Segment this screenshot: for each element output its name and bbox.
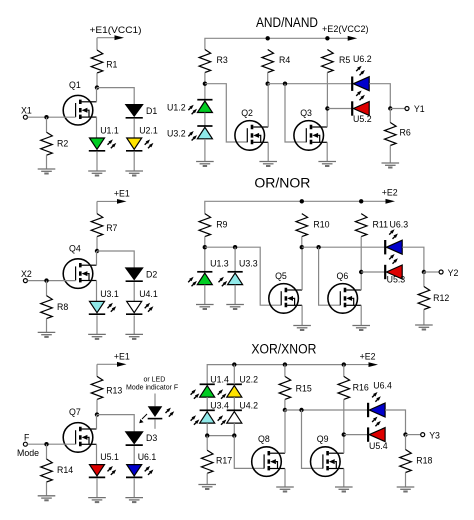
- wire R13 to node: [96, 399, 98, 414]
- wire U1.2 to U3.2: [204, 113, 206, 126]
- wire F to Q7 gate: [28, 443, 76, 445]
- diode D2: [126, 268, 158, 281]
- node A: [203, 82, 207, 86]
- ground U1.1: [88, 171, 106, 176]
- ground R2: [38, 169, 56, 174]
- terminal Y2: [439, 270, 443, 274]
- wire to Y1: [390, 108, 405, 110]
- terminal F: [23, 442, 27, 446]
- resistor R13: [91, 376, 122, 399]
- LED U1.4 green: [191, 374, 229, 399]
- junction node B / Q3 gate: [283, 82, 287, 86]
- ground U5.1: [88, 498, 106, 503]
- resistor R5: [322, 50, 351, 73]
- svg-text:+E1: +E1: [114, 352, 130, 362]
- wire R4 to node B: [267, 73, 269, 84]
- resistor R2: [41, 132, 69, 155]
- wire node A to Q2 gate: [205, 84, 247, 142]
- wire Q8 drain up: [284, 410, 286, 453]
- svg-text:or LED: or LED: [144, 377, 166, 384]
- power +E1 +E1: [97, 189, 130, 204]
- svg-text:U1.1: U1.1: [100, 126, 119, 136]
- wire node C2 to U5.3: [361, 271, 385, 273]
- transistor Q3 (N-MOSFET): [294, 108, 327, 150]
- wire R10 to node B2: [301, 237, 303, 248]
- svg-text:U1.3: U1.3: [210, 258, 229, 268]
- LED U2.1 yellow: [126, 126, 158, 151]
- ground Q8: [276, 487, 294, 492]
- transistor Q9 (N-MOSFET): [311, 434, 344, 476]
- wire rail to U2.2: [233, 365, 235, 385]
- svg-text:Y3: Y3: [429, 430, 440, 440]
- resistor R1: [91, 50, 117, 73]
- wire node B2 to U6.3: [302, 246, 385, 248]
- node Q7 drain junction: [95, 412, 99, 416]
- wire U1.4 to U3.4: [206, 397, 208, 410]
- svg-text:R18: R18: [416, 456, 432, 466]
- svg-text:R17: R17: [216, 456, 232, 466]
- LED U6.1 blue: [126, 452, 156, 477]
- ground Q9: [335, 487, 353, 492]
- svg-text:Y2: Y2: [448, 268, 459, 278]
- wire U2.2 to U4.2: [233, 397, 235, 410]
- wire rail to R15: [284, 365, 286, 377]
- wire E1 to R1: [96, 38, 98, 50]
- wire D2 to U4.1: [133, 282, 135, 301]
- svg-text:XOR/XNOR: XOR/XNOR: [251, 342, 316, 357]
- node Y3 junction: [403, 432, 407, 436]
- LED U4.1 white: [126, 289, 158, 314]
- wire Q7 drain up: [96, 415, 98, 429]
- ground Q5: [293, 326, 311, 331]
- wire U6.4 anode to Y3 node: [385, 410, 405, 435]
- svg-text:Q6: Q6: [337, 271, 349, 281]
- wire R17 to ground: [206, 473, 208, 484]
- wire U6.1 to ground: [133, 479, 135, 498]
- ground Q3: [318, 162, 336, 167]
- svg-text:+E1(VCC1): +E1(VCC1): [90, 25, 142, 35]
- terminal X2: [23, 279, 27, 283]
- LED U1.1 green: [89, 126, 119, 151]
- power +E2 +E2: [344, 352, 378, 367]
- ground Q6: [352, 326, 370, 331]
- svg-text:R3: R3: [217, 55, 228, 65]
- wire U6.3 anode to Y2 node: [402, 247, 424, 272]
- node Q1 drain junction: [95, 85, 99, 89]
- svg-text:R15: R15: [296, 384, 312, 394]
- power +E2(VCC2) +E2(VCC2): [322, 24, 369, 41]
- node Q4 drain junction: [95, 249, 99, 253]
- node C: [325, 106, 329, 110]
- transistor Q6 (N-MOSFET): [328, 271, 361, 313]
- svg-text:X1: X1: [21, 105, 32, 115]
- svg-text:U1.2: U1.2: [167, 103, 186, 113]
- node B: [266, 82, 270, 86]
- wire Q5 drain up: [301, 247, 303, 290]
- wire to R18: [405, 435, 407, 450]
- power +E1 +E1: [97, 352, 130, 367]
- svg-text:Q5: Q5: [275, 271, 287, 281]
- wire to R2: [46, 117, 48, 132]
- ground U6.1: [125, 498, 143, 503]
- wire Q5 source down: [301, 305, 303, 325]
- wire U1.1 to ground: [96, 152, 98, 171]
- junction X1/R2: [44, 115, 48, 119]
- svg-text:U5.2: U5.2: [353, 114, 372, 124]
- wire to Y3: [406, 434, 421, 436]
- svg-text:U3.1: U3.1: [100, 289, 119, 299]
- LED U6.3 blue: [385, 220, 408, 255]
- resistor R17: [201, 450, 232, 473]
- node C2: [359, 270, 363, 274]
- wire U1.3 to ground: [204, 285, 206, 305]
- LED U1.3 green: [188, 258, 229, 286]
- wire X2 to Q4 gate: [28, 280, 76, 282]
- wire E1 to R7: [96, 201, 98, 213]
- svg-text:R4: R4: [279, 55, 290, 65]
- transistor Q8 (N-MOSFET): [252, 434, 285, 476]
- wire to R6: [389, 109, 391, 123]
- wire node to D2: [97, 251, 134, 268]
- svg-text:D1: D1: [146, 106, 157, 116]
- svg-text:U4.1: U4.1: [139, 289, 158, 299]
- ground U3.1: [88, 334, 106, 339]
- junction node D/Q9 gate: [299, 408, 303, 412]
- junction F/R14: [44, 442, 48, 446]
- svg-text:Q9: Q9: [317, 434, 329, 444]
- svg-text:U2.2: U2.2: [239, 374, 258, 384]
- svg-text:U5.1: U5.1: [100, 452, 119, 462]
- wire +E2 rail: [207, 365, 344, 385]
- wire Q2 source down: [267, 142, 269, 161]
- wire X1 to Q1 gate: [28, 116, 76, 118]
- wire R9 to U1.3: [204, 237, 206, 272]
- svg-text:U5.3: U5.3: [387, 275, 406, 285]
- wire R2 to ground: [46, 155, 48, 169]
- transistor Q2 (N-MOSFET): [235, 108, 268, 150]
- diode D3: [126, 432, 158, 445]
- resistor R18: [400, 450, 433, 473]
- junction U3.3: [233, 245, 237, 249]
- terminal X1: [23, 115, 27, 119]
- wire R16 to node E: [343, 399, 345, 434]
- resistor R11: [355, 214, 388, 237]
- LED U5.2 red: [352, 91, 371, 125]
- wire +E2 rail: [205, 201, 361, 213]
- svg-text:U5.4: U5.4: [369, 441, 388, 451]
- wire node F row: [207, 435, 234, 437]
- wire to Q9 gate: [302, 410, 323, 468]
- svg-text:Q3: Q3: [300, 108, 312, 118]
- node Y1 junction: [388, 106, 392, 110]
- LED U5.3 red: [385, 254, 405, 285]
- wire to Y2: [424, 271, 439, 273]
- svg-text:U6.1: U6.1: [138, 452, 157, 462]
- terminal Y3: [421, 433, 425, 437]
- wire Q3 source down: [326, 142, 328, 161]
- ground R17: [198, 485, 216, 490]
- wire R7 to node: [96, 237, 98, 251]
- svg-text:Mode indicator F: Mode indicator F: [126, 384, 178, 391]
- wire R11 to node C2: [360, 237, 362, 272]
- wire Q7 source down: [96, 444, 98, 464]
- LED U5.1 red: [89, 452, 119, 477]
- wire Q1 drain up: [96, 88, 98, 102]
- node D: [283, 408, 287, 412]
- svg-text:R11: R11: [373, 220, 389, 230]
- svg-text:U6.4: U6.4: [373, 380, 392, 390]
- junction rail/R11: [359, 199, 363, 203]
- junction rail/R5: [325, 36, 329, 40]
- wire R1 to node: [96, 73, 98, 88]
- wire R8 to ground: [46, 319, 48, 333]
- wire R14 to ground: [46, 482, 48, 496]
- transistor Q7 (N-MOSFET): [63, 407, 96, 452]
- junction rail/R4: [266, 36, 270, 40]
- junction X2/R8: [44, 278, 48, 282]
- svg-text:U4.2: U4.2: [239, 400, 258, 410]
- wire R15 to node D: [284, 399, 286, 410]
- resistor R9: [199, 214, 228, 237]
- wire node E to U5.4: [344, 434, 368, 436]
- wire U3.4 down: [206, 423, 208, 436]
- svg-text:Q2: Q2: [241, 108, 253, 118]
- node B2: [300, 245, 304, 249]
- transistor Q5 (N-MOSFET): [269, 271, 302, 313]
- svg-text:R9: R9: [216, 220, 227, 230]
- resistor R6: [385, 123, 411, 146]
- wire rail to R16: [343, 365, 345, 377]
- wire to R14: [46, 444, 48, 459]
- power +E1(VCC1) +E1(VCC1): [90, 25, 142, 40]
- LED U2.2 yellow: [218, 374, 258, 399]
- svg-text:Q1: Q1: [69, 80, 81, 90]
- wire to Q8 gate: [234, 436, 264, 469]
- ground R8: [38, 332, 56, 337]
- svg-text:R1: R1: [106, 60, 117, 70]
- wire node to D3: [97, 415, 134, 432]
- wire Q1 source down: [96, 117, 98, 138]
- power +E2 +E2: [361, 188, 398, 204]
- wire U3.3 to ground: [234, 285, 236, 305]
- LED U3.1 cyan: [89, 289, 119, 314]
- svg-text:U3.3: U3.3: [239, 258, 258, 268]
- wire U3.2 to ground: [204, 139, 206, 162]
- wire U4.1 to ground: [133, 315, 135, 334]
- junction rail/R10: [300, 199, 304, 203]
- svg-text:Q7: Q7: [69, 407, 81, 417]
- wire R6 to ground: [389, 146, 391, 164]
- svg-text:AND/NAND: AND/NAND: [256, 15, 318, 30]
- wire Q6 drain up: [360, 272, 362, 290]
- LED U4.2 white: [218, 400, 258, 424]
- diode D1: [126, 105, 158, 118]
- node F/R17: [205, 433, 209, 437]
- ground U2.1: [125, 171, 143, 176]
- wire Q9 drain up: [343, 435, 345, 454]
- terminal Y1: [405, 107, 409, 111]
- wire U5.1 to ground: [96, 479, 98, 498]
- LED U5.4 red: [368, 417, 388, 451]
- svg-text:R12: R12: [433, 293, 449, 303]
- wire node B to U6.2: [268, 83, 353, 85]
- wire E1 to R13: [96, 364, 98, 376]
- svg-text:Q4: Q4: [69, 243, 81, 253]
- wire R12 to ground: [423, 310, 425, 326]
- wire R3 to U1.2: [204, 73, 206, 100]
- transistor Q4 (N-MOSFET): [63, 243, 96, 288]
- annotation arrow to D3: [139, 414, 147, 423]
- svg-text:+E1: +E1: [114, 189, 130, 199]
- LED U3.4 cyan: [191, 400, 229, 424]
- ground R12: [415, 325, 433, 330]
- wire to Q6 gate: [319, 247, 341, 305]
- svg-text:U3.2: U3.2: [167, 129, 186, 139]
- ground U1.3: [196, 305, 214, 310]
- wire U3.1 to ground: [96, 315, 98, 334]
- svg-text:R8: R8: [57, 302, 68, 312]
- svg-text:Mode: Mode: [17, 448, 39, 458]
- junction rail/U2.2: [232, 362, 236, 366]
- svg-text:X2: X2: [21, 269, 32, 279]
- ground U3.2: [196, 162, 214, 167]
- wire Q9 source down: [343, 469, 345, 488]
- svg-text:Q8: Q8: [258, 434, 270, 444]
- wire node A2 to Q5 gate: [205, 247, 281, 305]
- LED U6.4 blue: [368, 380, 392, 417]
- resistor R3: [199, 50, 228, 73]
- svg-text:R2: R2: [57, 139, 68, 149]
- ground U4.1: [125, 334, 143, 339]
- resistor R16: [338, 376, 369, 399]
- wire +E2 rail: [205, 38, 328, 49]
- svg-text:R6: R6: [400, 128, 411, 138]
- svg-text:U1.4: U1.4: [210, 374, 229, 384]
- wire D3 to U6.1: [133, 446, 135, 465]
- node E: [342, 432, 346, 436]
- svg-text:OR/NOR: OR/NOR: [254, 176, 310, 191]
- ground R18: [397, 487, 415, 492]
- wire to U3.3: [234, 247, 236, 272]
- wire U4.2 down: [233, 423, 235, 436]
- LED U3.2 cyan: [167, 126, 212, 141]
- ground U3.3: [226, 305, 244, 310]
- LED mode indicator (floating): [148, 394, 175, 429]
- resistor R15: [279, 376, 312, 399]
- wire U6.2 anode to Y1 node: [369, 84, 390, 109]
- wire to Q3 gate: [285, 84, 306, 142]
- node Y2 junction: [422, 270, 426, 274]
- node A2: [203, 245, 207, 249]
- wire R5 to node C: [326, 73, 328, 109]
- svg-text:R5: R5: [339, 55, 350, 65]
- svg-text:F: F: [24, 432, 30, 442]
- svg-text:+E2: +E2: [382, 188, 398, 198]
- wire Q4 source down: [96, 280, 98, 301]
- LED U1.2 green: [167, 100, 212, 115]
- resistor R12: [418, 287, 449, 310]
- wire node to D1: [97, 88, 134, 105]
- resistor R8: [41, 296, 69, 319]
- junction node B2/Q6 gate: [316, 245, 320, 249]
- wire node D to U6.4: [285, 409, 368, 411]
- svg-text:D2: D2: [146, 270, 157, 280]
- svg-text:+E2: +E2: [360, 352, 376, 362]
- wire to R17: [206, 436, 208, 451]
- wire Q8 source down: [284, 469, 286, 488]
- svg-text:R10: R10: [313, 220, 329, 230]
- svg-text:+E2(VCC2): +E2(VCC2): [322, 24, 369, 34]
- wire to R12: [423, 272, 425, 287]
- wire Q6 source down: [360, 305, 362, 325]
- svg-text:Y1: Y1: [414, 104, 425, 114]
- resistor R7: [91, 214, 117, 237]
- resistor R10: [296, 214, 330, 237]
- ground Q2: [259, 162, 277, 167]
- wire Q3 drain up: [326, 109, 328, 128]
- LED U3.3 cyan: [219, 258, 258, 286]
- wire U2.1 to ground: [133, 152, 135, 171]
- junction rail/R16: [342, 362, 346, 366]
- svg-text:R13: R13: [106, 386, 122, 396]
- svg-text:R7: R7: [106, 223, 117, 233]
- wire Q4 drain up: [96, 251, 98, 265]
- junction Q8 gate feed: [232, 433, 236, 437]
- svg-text:U3.4: U3.4: [210, 400, 229, 410]
- resistor R4: [262, 50, 290, 73]
- wire node C to U5.2: [327, 108, 352, 110]
- junction rail/R15: [283, 362, 287, 366]
- svg-text:U6.3: U6.3: [390, 220, 409, 230]
- svg-text:U2.1: U2.1: [139, 126, 158, 136]
- svg-text:R14: R14: [57, 465, 73, 475]
- wire Q2 drain up: [267, 84, 269, 127]
- svg-text:U6.2: U6.2: [353, 54, 372, 64]
- ground R14: [38, 496, 56, 501]
- svg-text:D3: D3: [146, 433, 157, 443]
- ground R6: [382, 163, 400, 168]
- transistor Q1 (N-MOSFET): [63, 80, 96, 125]
- wire R18 to ground: [405, 473, 407, 488]
- svg-text:R16: R16: [353, 383, 369, 393]
- wire to R8: [46, 281, 48, 296]
- LED U6.2 blue: [352, 54, 371, 91]
- wire D1 to U2.1: [133, 119, 135, 138]
- resistor R14: [41, 459, 74, 482]
